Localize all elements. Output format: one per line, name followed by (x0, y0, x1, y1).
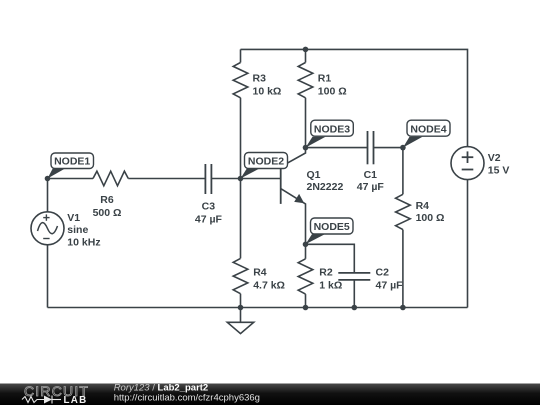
svg-text:NODE4: NODE4 (410, 123, 446, 135)
svg-text:100 Ω: 100 Ω (318, 85, 347, 97)
footer logo zigzag diode (22, 396, 61, 404)
node dot top rail R1 (303, 47, 309, 53)
svg-text:R2: R2 (319, 267, 333, 279)
wire bottom rail (48, 307, 468, 309)
wire R2 leads (305, 244, 307, 258)
wire NODE4 down to R4 100 (402, 148, 404, 195)
transistor Q1 collector lead (281, 148, 306, 167)
wire R4 100 to bottom rail (402, 230, 404, 308)
value label R1 (318, 73, 347, 98)
resistor R1 (298, 63, 313, 98)
value label Q1 (307, 169, 344, 193)
svg-text:R4: R4 (416, 200, 430, 212)
svg-text:LAB: LAB (64, 395, 88, 405)
node dot bottom R2 (303, 305, 309, 311)
wire V1 bottom (47, 245, 49, 308)
svg-text:NODE5: NODE5 (314, 221, 350, 233)
wire NODE1 to R6 (48, 178, 94, 180)
svg-text:500 Ω: 500 Ω (93, 207, 122, 219)
svg-text:V2: V2 (488, 152, 501, 164)
wire R1 to NODE3 (305, 98, 307, 148)
svg-text:sine: sine (67, 224, 88, 236)
wire R3 column top (240, 49, 242, 62)
wire NODE5 to C2 (306, 244, 355, 273)
capacitor C3 (205, 164, 211, 194)
node label NODE1 (48, 153, 94, 179)
node label NODE3 (306, 120, 354, 147)
value label R2 (319, 267, 342, 292)
node dot NODE5 (303, 242, 309, 248)
resistor R4 4.7k (233, 258, 248, 293)
svg-text:10 kΩ: 10 kΩ (253, 85, 282, 97)
transistor Q1 emitter arrowhead (294, 194, 304, 203)
svg-text:NODE1: NODE1 (54, 156, 90, 168)
node dot NODE3 (303, 145, 309, 151)
svg-text:15 V: 15 V (488, 164, 510, 176)
transistor Q1 base bar (280, 166, 282, 204)
wire R1 column top (305, 49, 307, 62)
wire C1 to NODE4 (374, 147, 403, 149)
svg-text:2N2222: 2N2222 (307, 181, 344, 193)
svg-text:Q1: Q1 (307, 169, 321, 181)
wire R6 to C3 (128, 178, 205, 180)
resistor R3 (233, 63, 248, 98)
footer bar (0, 384, 540, 405)
svg-text:1 kΩ: 1 kΩ (319, 279, 342, 291)
voltage source V1 (31, 212, 64, 245)
value label V1 (67, 212, 100, 248)
node dot NODE1 (45, 176, 51, 182)
node label NODE5 (306, 218, 354, 244)
svg-text:R4: R4 (253, 267, 267, 279)
svg-text:10 kHz: 10 kHz (67, 236, 100, 248)
svg-text:R3: R3 (253, 73, 267, 85)
ground (240, 308, 242, 323)
svg-text:R6: R6 (100, 194, 114, 206)
wire V1 top (47, 179, 49, 212)
node dot NODE4 (400, 145, 406, 151)
svg-text:C2: C2 (376, 267, 390, 279)
wire top rail (241, 49, 468, 146)
value label R4 4.7k (253, 267, 285, 292)
value label C1 (357, 169, 385, 193)
wire R4 bottom (240, 294, 242, 308)
voltage source V2 (451, 147, 484, 180)
capacitor C1 (368, 131, 374, 164)
transistor Q1 emitter lead (281, 189, 306, 245)
svg-text:47 µF: 47 µF (376, 279, 404, 291)
node dot NODE2 (238, 176, 244, 182)
resistor R2 (298, 259, 313, 294)
svg-text:http://circuitlab.com/cfzr4cph: http://circuitlab.com/cfzr4cphy636g (114, 393, 260, 404)
node dot bottom ground (238, 305, 244, 311)
wire C3 to NODE2 to base (211, 178, 280, 180)
node label NODE4 (403, 120, 450, 147)
svg-text:R1: R1 (318, 73, 332, 85)
svg-text:NODE3: NODE3 (314, 123, 350, 135)
node dot bottom R4 (400, 305, 406, 311)
node label NODE2 (241, 153, 288, 179)
value label C3 (195, 201, 223, 226)
value label C2 (376, 267, 404, 292)
svg-text:4.7 kΩ: 4.7 kΩ (253, 279, 285, 291)
value label R3 (253, 73, 282, 98)
value label V2 (488, 152, 510, 176)
svg-text:C1: C1 (364, 169, 378, 181)
svg-text:C3: C3 (202, 201, 216, 213)
svg-text:V1: V1 (67, 212, 80, 224)
svg-text:47 µF: 47 µF (357, 181, 385, 193)
svg-text:47 µF: 47 µF (195, 214, 223, 226)
capacitor C2 (338, 273, 370, 280)
wire C2 bottom (353, 280, 355, 308)
value label R6 (93, 194, 122, 219)
resistor R4 100 (396, 194, 411, 229)
svg-text:100 Ω: 100 Ω (416, 212, 445, 224)
wire R3 to NODE2 and down to R4 (240, 98, 242, 259)
resistor R6 (93, 171, 128, 186)
wire V2 bottom (467, 180, 469, 308)
svg-text:NODE2: NODE2 (248, 156, 284, 168)
value label R4 100 (416, 200, 445, 224)
wire NODE3 to C1 (306, 147, 368, 149)
node dot bottom C2 (352, 305, 358, 311)
